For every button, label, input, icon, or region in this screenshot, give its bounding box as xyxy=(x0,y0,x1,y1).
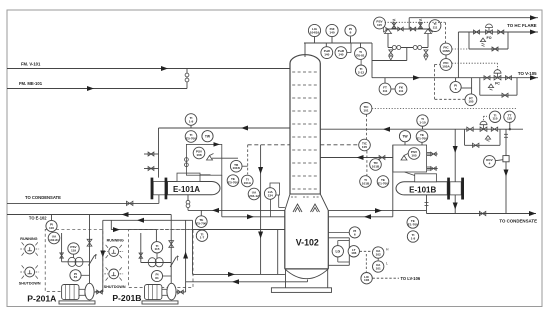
column vapor chevron left xyxy=(293,204,302,212)
instrument PSV 108 xyxy=(193,147,205,159)
label P-201B xyxy=(112,293,141,303)
svg-text:E5-700: E5-700 xyxy=(196,222,206,226)
wire suction stub line xyxy=(111,220,156,232)
orifice pair on sample box edge xyxy=(185,158,189,167)
signal dashed LIC to LV-106 xyxy=(373,277,400,279)
instrument TB 101B xyxy=(230,160,247,172)
label RUNNING B xyxy=(107,239,124,243)
signal dashed box B top xyxy=(139,229,193,231)
wire pump A warmup line xyxy=(62,233,90,262)
svg-text:TW: TW xyxy=(402,134,408,138)
wire vertical through arrows xyxy=(258,145,263,275)
svg-text:115: 115 xyxy=(155,247,160,251)
E-101B flange bar right xyxy=(461,178,464,200)
column dished bottom xyxy=(285,269,329,279)
angle valve in E-101B box xyxy=(401,154,408,161)
E-101A channel box xyxy=(153,182,167,195)
wire E-101A inlet drop xyxy=(158,128,160,178)
svg-text:2-12: 2-12 xyxy=(358,71,364,75)
wire feed line FM. V-101 xyxy=(7,66,290,71)
svg-text:FO: FO xyxy=(487,36,492,40)
svg-text:E5-700: E5-700 xyxy=(228,181,238,185)
wire feed line FM. ME-101 xyxy=(7,86,187,91)
level rect at LIA 134 xyxy=(270,183,285,217)
instrument TI 101A xyxy=(242,175,254,187)
instrument PI 81 B xyxy=(151,270,171,281)
hand switch square xyxy=(503,156,509,162)
svg-text:TW: TW xyxy=(205,134,211,138)
svg-text:E1-700: E1-700 xyxy=(408,222,418,226)
orifice pair lower left xyxy=(392,46,401,50)
heat exchanger E-101B body xyxy=(396,182,447,195)
instrument TIC 105 xyxy=(359,139,371,151)
wire E-101B box stub lower xyxy=(427,167,438,171)
label FM. ME-101 xyxy=(19,81,43,86)
wire column bottoms to E-101A xyxy=(188,208,285,213)
svg-text:6: 6 xyxy=(350,30,352,34)
valve small pump B warmup xyxy=(139,253,143,258)
label TO HC FLARE xyxy=(507,23,537,28)
valve on feed riser xyxy=(185,73,189,82)
wire E-101B return to column xyxy=(328,214,393,219)
instrument FT 111 xyxy=(379,83,391,95)
relief valve manifold left end xyxy=(384,26,392,34)
valve FC block left xyxy=(484,76,490,80)
svg-text:111: 111 xyxy=(399,89,404,93)
svg-text:1-10: 1-10 xyxy=(419,120,425,124)
svg-text:110: 110 xyxy=(507,117,512,121)
drain relief FC station xyxy=(488,84,493,90)
wire pump B warmup line xyxy=(141,233,171,263)
junction TT 110 tap xyxy=(509,123,511,131)
instrument PI 6 right xyxy=(450,78,461,93)
wire instrument header xyxy=(304,43,372,78)
instrument PSV 105 xyxy=(408,148,420,160)
wire flare header xyxy=(409,15,538,29)
wire exchanger inlet drop xyxy=(453,129,458,213)
valve pump B suction globe xyxy=(169,241,174,248)
instrument TI E0-81 xyxy=(355,43,367,59)
wire E-101A inlet stub lower xyxy=(144,168,159,170)
svg-text:140: 140 xyxy=(324,53,329,57)
wire FC bypass xyxy=(480,78,517,96)
instrument TI 1-9 xyxy=(185,114,197,128)
svg-text:101A: 101A xyxy=(244,181,252,185)
column V-102 narrow shell xyxy=(290,55,320,194)
svg-text:1-7: 1-7 xyxy=(200,236,205,240)
valve FO block left xyxy=(474,30,480,34)
label FO xyxy=(487,36,492,40)
svg-text:E0-81: E0-81 xyxy=(356,53,365,57)
svg-text:TO E-102: TO E-102 xyxy=(29,216,47,221)
instrument TI 111 xyxy=(429,20,441,32)
instrument TE E1-700 mid xyxy=(377,176,389,188)
svg-text:101B: 101B xyxy=(232,166,240,170)
svg-text:105A: 105A xyxy=(442,64,450,68)
signal dashed LT to UA xyxy=(360,250,373,252)
valve pump A discharge gate xyxy=(68,257,83,266)
pump P-201A casing xyxy=(85,283,94,300)
valve condensate west xyxy=(127,201,133,205)
instrument TT 110 xyxy=(504,111,515,122)
svg-text:L: L xyxy=(386,261,388,265)
instrument LIC 106 xyxy=(361,273,372,284)
relief inlet valve left xyxy=(392,19,396,29)
status lamp B shutdown xyxy=(104,267,123,280)
instrument LIA 134 xyxy=(264,188,276,200)
wire column side draw xyxy=(320,155,393,160)
instrument PI 116 xyxy=(46,215,57,232)
E-101A sample box xyxy=(186,142,221,175)
E-101B flange bar left xyxy=(447,178,450,200)
valve pump A discharge xyxy=(94,290,103,294)
wire condensate west xyxy=(7,195,159,204)
wire bottoms line lower xyxy=(186,279,308,284)
wire riser joining feed lines xyxy=(186,69,188,89)
valve overhead block left xyxy=(467,127,473,131)
svg-text:V-102: V-102 xyxy=(296,237,319,247)
instrument PIC 105B xyxy=(440,43,452,55)
signal dotted TI-110 drop xyxy=(484,116,488,121)
svg-text:108: 108 xyxy=(196,153,201,157)
label TO LV-106 xyxy=(401,276,421,281)
svg-text:6: 6 xyxy=(455,87,457,91)
svg-text:FC: FC xyxy=(495,82,500,86)
valve manifold upper left xyxy=(398,27,403,31)
label SHUTDOWN A xyxy=(19,282,41,286)
svg-text:E-101B: E-101B xyxy=(409,186,436,195)
wire E-101A inlet stub upper xyxy=(144,153,159,155)
E-101B top nozzle box xyxy=(405,172,437,182)
heat exchanger E-101A body xyxy=(168,182,221,195)
signal dashed to PIC 105B xyxy=(445,22,447,43)
svg-text:TO LV-106: TO LV-106 xyxy=(401,276,421,281)
pump P-201A baseplate xyxy=(59,301,95,304)
svg-text:LG: LG xyxy=(335,249,340,253)
instrument TI 1-10 xyxy=(417,115,428,129)
svg-text:TO CONDENSATE: TO CONDENSATE xyxy=(499,218,537,223)
status lamp A shutdown xyxy=(20,265,39,278)
svg-text:110: 110 xyxy=(493,117,498,121)
svg-text:SHUTDOWN: SHUTDOWN xyxy=(19,282,41,286)
svg-text:140: 140 xyxy=(338,53,343,57)
svg-text:111: 111 xyxy=(433,26,438,30)
instrument TE E5-700 lower xyxy=(196,210,208,227)
valve FC bypass xyxy=(502,93,508,97)
angle valve in sample box xyxy=(207,154,214,161)
svg-text:TO CONDENSATE: TO CONDENSATE xyxy=(25,195,61,200)
svg-text:4: 4 xyxy=(489,161,491,165)
signal dotted TIC 101 header xyxy=(372,107,517,109)
valve FO block right xyxy=(498,30,504,34)
wire E-101B box stub upper xyxy=(427,152,438,156)
control valve overhead LV xyxy=(480,121,487,131)
valve pump B discharge xyxy=(175,290,185,294)
svg-text:P-201A: P-201A xyxy=(27,293,56,303)
valve FO bypass xyxy=(492,47,498,51)
label V-102 xyxy=(296,237,319,247)
instrument TE E1-700 upper right xyxy=(416,131,428,145)
svg-text:115: 115 xyxy=(377,23,382,27)
svg-text:104/16: 104/16 xyxy=(310,30,320,34)
instrument TI 2-12 xyxy=(355,59,366,76)
column cone transition xyxy=(285,194,329,211)
wire FO bypass xyxy=(469,32,508,49)
wire riser to RCV set xyxy=(504,129,508,155)
signal dotted PIC 105B to FO valve xyxy=(452,48,486,50)
label FC xyxy=(495,82,500,86)
svg-text:106: 106 xyxy=(351,251,356,255)
valve FC block right xyxy=(506,76,512,80)
instrument TW left xyxy=(202,131,213,142)
instrument LIA 104/16 xyxy=(308,24,320,43)
svg-text:81: 81 xyxy=(155,276,159,280)
instrument TI 110 xyxy=(489,111,500,122)
instrument PIC 105A xyxy=(440,55,452,71)
svg-text:TO HC FLARE: TO HC FLARE xyxy=(507,23,537,28)
wire pump B discharge riser xyxy=(183,220,188,292)
label RUNNING A xyxy=(20,237,37,241)
instrument TE E1-700 left xyxy=(227,175,239,187)
valve side draw xyxy=(379,156,385,160)
E-101B channel box xyxy=(450,182,461,195)
label TO V-105 xyxy=(518,71,537,76)
instrument TI 101B xyxy=(360,176,372,188)
svg-text:E5-700: E5-700 xyxy=(186,136,196,140)
pump P-201A motor xyxy=(62,285,85,300)
svg-text:E-101A: E-101A xyxy=(173,185,200,194)
valve overhead bypass xyxy=(473,143,479,147)
instrument PSV 119 xyxy=(68,243,79,258)
check valve pump A xyxy=(89,254,98,266)
wire TO E-102 line xyxy=(7,212,171,217)
shutdown dashed box B xyxy=(129,230,194,288)
svg-text:RUNNING: RUNNING xyxy=(107,239,124,243)
svg-text:116: 116 xyxy=(49,226,54,230)
svg-text:106: 106 xyxy=(364,278,369,282)
valve inlet stub upper xyxy=(148,152,154,156)
E-101A flange bar left xyxy=(151,178,154,200)
pump P-201B motor xyxy=(145,285,168,300)
wire TO V-105 line xyxy=(372,75,538,80)
wire condensate east xyxy=(427,211,537,216)
svg-text:204-12: 204-12 xyxy=(249,194,259,198)
wire station tie riser xyxy=(457,32,459,78)
orifice pair on drain xyxy=(186,200,190,207)
wire PI to PT tap xyxy=(461,78,471,94)
wire RCV drop to condensate xyxy=(504,162,509,214)
svg-text:101B: 101B xyxy=(362,181,370,185)
column bottom shell xyxy=(285,211,329,269)
signal dashed left loop drop xyxy=(247,145,249,175)
vent valve lower left xyxy=(389,50,393,60)
instrument FK 111 xyxy=(385,78,407,95)
pump P-201B casing xyxy=(167,283,176,300)
wire level bridle xyxy=(328,238,349,265)
svg-text:1-9: 1-9 xyxy=(189,119,194,123)
valve condensate east xyxy=(479,211,485,215)
signal dashed TIC105 down xyxy=(366,151,368,176)
signal dashed column tap left xyxy=(248,144,290,146)
wire bottoms line upper xyxy=(193,272,285,277)
label FM. V-101 xyxy=(21,62,41,67)
instrument RCV 4 xyxy=(484,156,503,168)
E-101A flange bar right xyxy=(165,178,168,200)
signal dotted PSV to PIC xyxy=(385,21,446,23)
instrument UA 101 low xyxy=(373,258,389,272)
valve pump A suction globe xyxy=(87,239,92,246)
svg-text:105: 105 xyxy=(468,100,473,104)
svg-text:RUNNING: RUNNING xyxy=(20,237,37,241)
svg-text:E1-700: E1-700 xyxy=(417,136,427,140)
wire E-101B left riser xyxy=(392,145,394,217)
svg-text:105: 105 xyxy=(362,145,367,149)
wire FO valve line xyxy=(458,30,538,35)
label P-201A xyxy=(27,293,56,303)
instrument PuR 140 first xyxy=(321,43,333,58)
instrument PdI 140 xyxy=(326,24,338,43)
wire recycle top run xyxy=(193,230,285,275)
svg-text:111: 111 xyxy=(383,89,388,93)
wire pump A discharge riser xyxy=(100,220,105,292)
instrument PuR 140 second xyxy=(335,43,351,58)
svg-text:81: 81 xyxy=(74,275,78,279)
wire E-101A return line xyxy=(222,175,285,219)
instrument TR 101B xyxy=(370,159,382,171)
svg-text:E1-700: E1-700 xyxy=(378,181,388,185)
valve small pump A warmup xyxy=(60,253,64,258)
svg-text:102-81: 102-81 xyxy=(49,238,59,242)
check valve pump B xyxy=(170,256,179,268)
valve pump B discharge gate xyxy=(148,258,163,267)
relief inlet valve right xyxy=(419,19,423,29)
instrument TE E1-700 below xyxy=(407,217,419,229)
label TO CONDENSATE left xyxy=(25,195,61,200)
instrument UA 102-81 xyxy=(48,232,60,244)
signal dotted PIC 105A to FC valve xyxy=(452,63,498,71)
label E-101B xyxy=(409,186,436,195)
valve overhead block right xyxy=(491,127,497,131)
svg-text:134: 134 xyxy=(268,193,273,197)
instrument PT 105 xyxy=(465,94,477,106)
wire reflux line left xyxy=(159,126,291,131)
gauge glass LG xyxy=(332,241,349,263)
valve manifold upper right xyxy=(410,27,415,31)
svg-text:105: 105 xyxy=(411,153,416,157)
orifice pair lower right xyxy=(413,46,422,50)
wire manifold inlet from column xyxy=(372,48,407,61)
instrument PI 81 xyxy=(70,270,90,281)
status lamp B run xyxy=(104,245,123,258)
instrument UA 204-12 xyxy=(248,188,260,200)
wire sample box outlet right xyxy=(212,157,238,159)
vent valve lower right xyxy=(424,50,428,60)
shutdown dashed box A xyxy=(45,229,103,291)
svg-text:119: 119 xyxy=(71,248,76,252)
signal dashed down to LIC xyxy=(365,254,367,272)
svg-text:101B: 101B xyxy=(372,164,380,168)
instrument LT 106 xyxy=(348,246,359,257)
column trays (dashed) xyxy=(292,72,318,189)
relief valve manifold right end xyxy=(425,26,433,34)
E-101B sample box xyxy=(393,145,427,172)
svg-text:FM. V-101: FM. V-101 xyxy=(21,62,41,67)
svg-text:101: 101 xyxy=(363,108,368,112)
drain relief below FO line xyxy=(480,38,485,46)
wire pump B suction drop xyxy=(170,215,172,286)
wire pump A suction drop xyxy=(89,215,91,286)
svg-text:SHUTDOWN: SHUTDOWN xyxy=(104,285,126,289)
wire PSV manifold upper xyxy=(385,28,431,30)
svg-text:FM. ME-101: FM. ME-101 xyxy=(19,81,43,86)
control valve FO xyxy=(486,24,493,34)
svg-text:101: 101 xyxy=(376,266,381,270)
column skirt xyxy=(271,269,331,293)
signal dashed PT 105 to PIC xyxy=(435,65,466,100)
wire pump riser east xyxy=(192,220,194,274)
wire overhead bypass xyxy=(465,129,501,145)
instrument PSV 115 xyxy=(374,17,386,29)
instrument TI E5-700 upper xyxy=(185,131,197,143)
label TO E-102 xyxy=(29,216,47,221)
control valve FC xyxy=(494,70,501,80)
instrument PI 6 xyxy=(345,25,356,43)
wire E-101B drain xyxy=(425,195,429,214)
label SHUTDOWN B xyxy=(104,285,126,289)
wire discharge header xyxy=(103,218,193,223)
column vapor chevron right xyxy=(311,204,320,212)
pump P-201B baseplate xyxy=(142,301,178,304)
E-101A top nozzle box xyxy=(177,173,211,181)
svg-text:6: 6 xyxy=(354,232,356,236)
status lamp A run xyxy=(20,242,39,255)
wire E-101B feed from column xyxy=(328,208,426,213)
valve inlet stub lower xyxy=(148,167,154,171)
svg-text:102: 102 xyxy=(376,252,381,256)
instrument TI 115 xyxy=(151,230,162,259)
label E-101A xyxy=(173,185,200,194)
signal dashed TIC to TIC105 xyxy=(365,114,367,139)
drain glyph overhead bypass xyxy=(485,136,490,142)
svg-text:105B: 105B xyxy=(442,49,450,53)
wire overhead line right xyxy=(320,127,523,132)
svg-text:1-8: 1-8 xyxy=(411,236,416,240)
instrument TW right xyxy=(399,131,410,145)
instrument TIC 101 xyxy=(360,103,372,115)
svg-text:140: 140 xyxy=(329,30,334,34)
instrument PI 6 bottom xyxy=(328,227,360,238)
instrument TI 1-7 xyxy=(196,230,207,241)
wire PSV manifold lower xyxy=(388,34,428,48)
instrument TI 1-8 xyxy=(407,231,418,242)
instrument UA 102 high xyxy=(373,247,390,258)
wire E-101A drain xyxy=(187,195,189,211)
svg-text:P-201B: P-201B xyxy=(112,293,141,303)
signal dashed column tap right xyxy=(320,144,358,146)
svg-text:TO V-105: TO V-105 xyxy=(518,71,537,76)
label TO CONDENSATE right xyxy=(499,218,537,223)
